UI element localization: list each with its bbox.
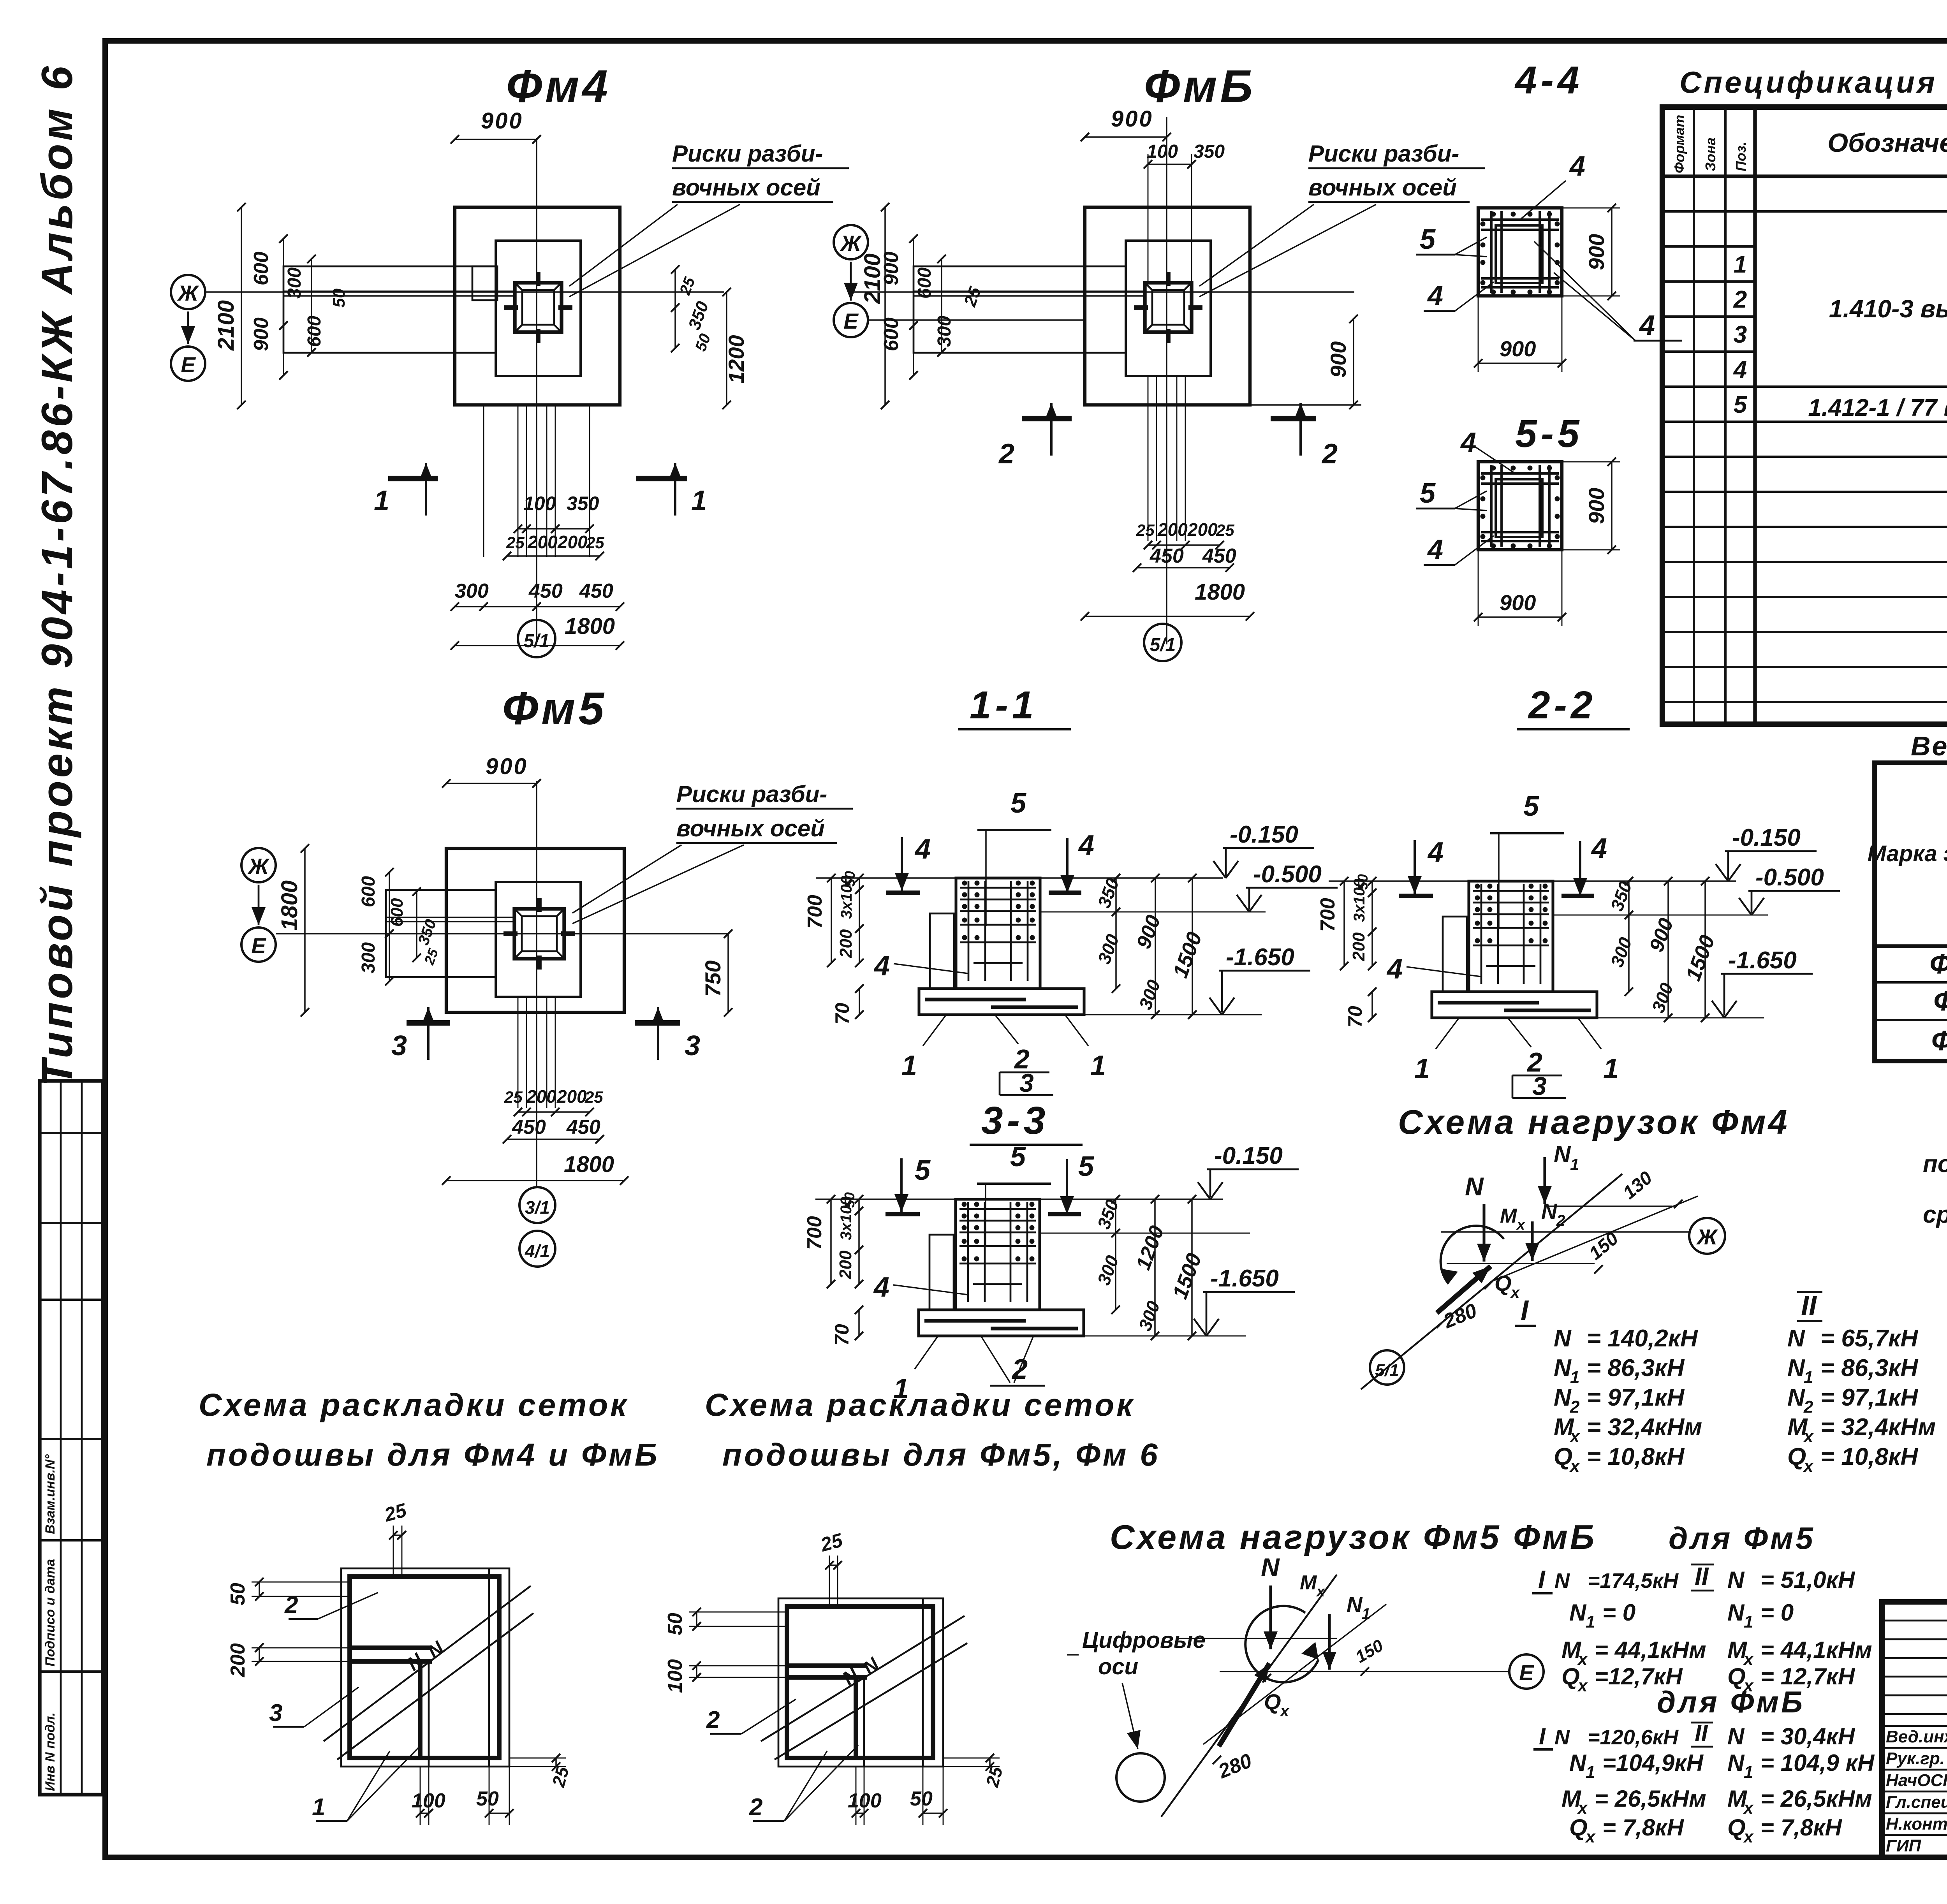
plan ФмБ right dim 900 <box>1353 319 1354 405</box>
svg-text:= 86,3кН: = 86,3кН <box>1587 1355 1685 1381</box>
svg-text:Q: Q <box>1727 1814 1746 1841</box>
svg-text:5: 5 <box>915 1155 931 1186</box>
section 4-4 right dim 900 <box>1611 208 1613 296</box>
svg-text:4: 4 <box>1639 310 1655 341</box>
svg-text:1: 1 <box>1804 1368 1813 1387</box>
svg-text:1: 1 <box>901 1050 917 1081</box>
svg-text:900: 900 <box>481 108 523 134</box>
svg-text:450: 450 <box>566 1116 600 1139</box>
load scheme Фм5 force arrow N <box>1269 1585 1272 1649</box>
svg-text:450: 450 <box>528 580 563 602</box>
svg-text:900: 900 <box>486 754 528 779</box>
svg-text:1: 1 <box>691 485 707 516</box>
mesh square thick mesh border <box>350 1577 499 1758</box>
plan Фм5 right dim 750 <box>727 934 729 1012</box>
svg-text:5: 5 <box>1420 478 1436 509</box>
load scheme Фм5 dim 280 <box>1213 1756 1221 1764</box>
svg-text:= 7,8кН: = 7,8кН <box>1760 1814 1843 1841</box>
plan Фм5 centre axis lines <box>536 781 537 1187</box>
mesh square inner thick bars <box>350 1645 432 1650</box>
svg-text:3: 3 <box>391 1030 407 1061</box>
svg-text:25: 25 <box>504 1088 523 1106</box>
svg-text:1: 1 <box>1570 1155 1579 1174</box>
load scheme Фм5 force arrow N1 <box>1328 1614 1331 1670</box>
plan ФмБ pedestal square <box>1126 241 1211 376</box>
svg-text:Рук.гр.: Рук.гр. <box>1886 1749 1945 1768</box>
mesh square outline <box>778 1598 943 1767</box>
plan ФмБ centre axis lines <box>1166 117 1167 644</box>
steel table grid <box>1875 763 1947 1061</box>
svg-text:1.410-3 вып. 1: 1.410-3 вып. 1 <box>1829 295 1947 323</box>
svg-text:5/1: 5/1 <box>1375 1361 1399 1380</box>
mesh square left dims <box>689 1612 787 1613</box>
svg-text:200: 200 <box>526 1086 556 1107</box>
svg-text:= 10,8кН: = 10,8кН <box>1820 1443 1919 1470</box>
svg-text:25: 25 <box>506 533 525 552</box>
svg-text:II: II <box>1695 1562 1709 1590</box>
load scheme Фм4 horizontal lines <box>1441 1231 1690 1233</box>
load scheme Фм5 shear arrow Qx <box>1219 1663 1269 1746</box>
plan Фм4 pedestal square <box>496 241 581 376</box>
section 3-3 level connector lines <box>1040 1233 1250 1234</box>
svg-text:50: 50 <box>227 1583 249 1605</box>
svg-text:900: 900 <box>250 317 273 351</box>
svg-text:450: 450 <box>1202 545 1236 567</box>
svg-text:срезать.: срезать. <box>1923 1201 1947 1228</box>
svg-text:N: N <box>1465 1172 1484 1201</box>
svg-text:Цифровые: Цифровые <box>1082 1628 1206 1653</box>
svg-text:Н.контр: Н.контр <box>1886 1814 1947 1834</box>
plan Фм5 left small dims <box>389 872 390 981</box>
svg-text:ФмБ: ФмБ <box>1144 61 1256 112</box>
svg-text:N: N <box>1554 1325 1572 1352</box>
svg-text:N: N <box>1787 1384 1805 1411</box>
section 3-3 base slab <box>919 1310 1084 1336</box>
svg-text:3: 3 <box>269 1700 282 1726</box>
svg-text:х: х <box>1585 1827 1596 1846</box>
plan Фм5 column pocket <box>514 909 564 959</box>
svg-text:М: М <box>1500 1205 1517 1227</box>
svg-text:100: 100 <box>523 493 556 514</box>
svg-text:4: 4 <box>1386 954 1403 985</box>
svg-text:200: 200 <box>527 532 558 552</box>
svg-text:подколонников верхние попер: подколонников верхние поперечные стержни… <box>1923 1151 1947 1177</box>
svg-text:4: 4 <box>1460 427 1476 458</box>
svg-text:900: 900 <box>880 252 903 285</box>
svg-text:Схема раскладки сеток: Схема раскладки сеток <box>705 1387 1135 1423</box>
svg-text:100: 100 <box>848 1790 882 1812</box>
svg-text:1-1: 1-1 <box>970 683 1038 727</box>
load scheme Фм4 force arrow N2 <box>1531 1221 1533 1261</box>
section 2-2 pedestal reinforcement <box>1480 884 1482 984</box>
svg-text:= 32,4кНм: = 32,4кНм <box>1587 1414 1702 1441</box>
svg-text:100: 100 <box>1147 141 1178 162</box>
svg-text:=174,5кН: =174,5кН <box>1588 1569 1679 1593</box>
svg-text:I: I <box>1521 1295 1529 1326</box>
svg-text:Ж: Ж <box>247 854 270 878</box>
svg-text:2-2: 2-2 <box>1528 683 1597 727</box>
svg-text:2100: 2100 <box>213 300 239 351</box>
svg-text:5-5: 5-5 <box>1515 412 1583 456</box>
svg-text:М: М <box>1300 1571 1317 1594</box>
svg-text:600: 600 <box>250 252 273 285</box>
svg-text:вочных осей: вочных осей <box>672 174 820 201</box>
section 4-4 mesh bars <box>1490 211 1493 293</box>
svg-text:3x100: 3x100 <box>838 1197 855 1240</box>
plan Фм5 mesh wing rectangle <box>386 890 496 977</box>
svg-text:900: 900 <box>1500 336 1536 361</box>
plan ФмБ mesh wing rectangle <box>914 266 1126 353</box>
section 5-5 right dim 900 <box>1611 462 1613 550</box>
svg-text:1.412-1 / 77 вып. 3: 1.412-1 / 77 вып. 3 <box>1808 394 1947 421</box>
svg-text:300: 300 <box>284 267 305 299</box>
svg-text:Q: Q <box>1569 1814 1588 1841</box>
svg-text:Риски разби-: Риски разби- <box>676 781 827 807</box>
mesh square diagonal axis <box>324 1586 531 1741</box>
section 3-3 side mesh <box>929 1235 954 1310</box>
section 3-3 pedestal <box>956 1199 1040 1310</box>
svg-text:600: 600 <box>358 876 379 907</box>
plan Фм5 top dim 900 <box>446 783 537 784</box>
svg-text:70: 70 <box>831 1003 853 1024</box>
plan Фм4 bottom dim rows <box>483 405 484 557</box>
svg-text:Схема нагрузок Фм5 ФмБ: Схема нагрузок Фм5 ФмБ <box>1110 1518 1597 1556</box>
plan Фм5 section mark 3 right <box>635 1020 680 1026</box>
svg-text:-0.150: -0.150 <box>1732 824 1801 851</box>
svg-text:N: N <box>1569 1600 1587 1626</box>
section 2-2 side mesh <box>1443 917 1467 992</box>
section 3-3 leader 4 mid <box>893 1285 967 1295</box>
svg-text:Q: Q <box>1264 1689 1281 1714</box>
section 2-2 left dims <box>1343 881 1345 966</box>
plan ФмБ axis circle Е <box>834 303 868 337</box>
svg-text:3: 3 <box>1734 321 1747 348</box>
svg-text:= 26,5кНм: = 26,5кНм <box>1760 1786 1872 1812</box>
svg-text:N: N <box>1787 1325 1805 1352</box>
svg-text:= 44,1кНм: = 44,1кНм <box>1760 1637 1872 1663</box>
svg-text:1: 1 <box>1362 1605 1370 1622</box>
plan Фм5 bottom dim rows <box>518 997 519 1108</box>
svg-text:Q: Q <box>1561 1663 1580 1689</box>
svg-text:Фм5: Фм5 <box>1933 985 1947 1017</box>
left margin stamp table <box>40 1081 103 1795</box>
svg-text:х: х <box>1316 1584 1326 1600</box>
svg-text:N: N <box>1261 1553 1280 1582</box>
svg-text:50: 50 <box>329 289 349 308</box>
svg-text:Риски разби-: Риски разби- <box>672 141 823 167</box>
svg-text:1800: 1800 <box>277 880 302 931</box>
svg-text:5: 5 <box>1523 791 1539 822</box>
svg-text:вочных осей: вочных осей <box>1308 174 1457 201</box>
load scheme Фм4 dims 150 130 <box>1594 1265 1603 1274</box>
svg-text:2: 2 <box>1733 286 1747 313</box>
svg-text:5: 5 <box>1010 1141 1026 1172</box>
svg-text:200: 200 <box>557 532 588 552</box>
section 1-1 pedestal reinforcement <box>968 881 970 981</box>
svg-text:для Фм5: для Фм5 <box>1669 1521 1815 1556</box>
mesh square thick mesh border <box>787 1607 933 1758</box>
svg-text:I: I <box>1538 1565 1546 1593</box>
svg-text:2: 2 <box>284 1592 298 1619</box>
svg-text:25: 25 <box>584 1088 603 1106</box>
load scheme Фм4 axis diagonal 5/1 <box>1361 1174 1622 1389</box>
svg-text:Схема раскладки сеток: Схема раскладки сеток <box>199 1387 629 1423</box>
plan Фм4 axis circle Ж <box>171 275 205 309</box>
svg-text:= 51,0кН: = 51,0кН <box>1760 1567 1855 1593</box>
svg-text:5: 5 <box>1078 1151 1094 1182</box>
load scheme Фм4 force arrow N1 <box>1543 1157 1546 1204</box>
svg-text:4-4: 4-4 <box>1514 58 1583 102</box>
section 1-1 arrows 4 <box>901 837 903 891</box>
svg-text:Ж: Ж <box>177 281 199 305</box>
svg-text:700: 700 <box>804 895 826 929</box>
plan Фм4 top dim 900 <box>455 139 537 140</box>
svg-text:НачОСП-1: НачОСП-1 <box>1886 1771 1947 1790</box>
section 1-1 level connector lines <box>1040 912 1266 913</box>
svg-text:600: 600 <box>880 317 903 351</box>
svg-text:Ведомость расхода стали на: Ведомость расхода стали на элемент, кг <box>1911 731 1947 761</box>
svg-text:200: 200 <box>836 929 856 958</box>
section 2-2 ground line <box>1329 880 1736 882</box>
svg-text:300: 300 <box>358 942 379 973</box>
svg-text:2: 2 <box>1011 1354 1028 1385</box>
svg-text:50: 50 <box>664 1613 687 1635</box>
load scheme Фм5 axis diagonal <box>1161 1575 1337 1817</box>
svg-text:= 140,2кН: = 140,2кН <box>1587 1325 1698 1352</box>
svg-text:100: 100 <box>412 1790 445 1812</box>
svg-text:3: 3 <box>1532 1072 1547 1100</box>
svg-text:2: 2 <box>998 438 1014 470</box>
plan Фм5 bottom axis circles 3/1 4/1 <box>519 1187 555 1223</box>
specification table grid <box>1662 107 1947 724</box>
svg-text:4: 4 <box>914 834 931 865</box>
mesh square bottom dims 100 50 <box>856 1767 857 1825</box>
svg-text:700: 700 <box>1317 898 1339 932</box>
svg-text:5: 5 <box>1010 788 1026 819</box>
section 2-2 right dims <box>1628 881 1630 992</box>
svg-text:600: 600 <box>914 267 935 299</box>
main title block outer <box>1882 1602 1947 1857</box>
svg-text:Вед.инж: Вед.инж <box>1886 1727 1947 1746</box>
svg-text:1: 1 <box>1744 1763 1753 1782</box>
svg-text:200: 200 <box>1349 932 1368 961</box>
section 1-1 right dims <box>1115 878 1117 989</box>
mesh square right dim 25 <box>509 1758 566 1759</box>
svg-text:70: 70 <box>831 1324 853 1346</box>
svg-text:200: 200 <box>1187 519 1218 540</box>
svg-text:=104,9кН: =104,9кН <box>1602 1750 1704 1776</box>
svg-text:3-3: 3-3 <box>981 1099 1049 1142</box>
svg-text:50: 50 <box>910 1788 933 1810</box>
svg-text:N: N <box>1569 1750 1587 1776</box>
svg-text:Ж: Ж <box>1696 1225 1718 1249</box>
svg-text:200: 200 <box>227 1643 249 1677</box>
svg-text:900: 900 <box>1326 341 1350 378</box>
svg-text:Фм 4: Фм 4 <box>1929 948 1947 980</box>
section 2-2 slab reinforcement bars <box>1438 1001 1539 1004</box>
svg-text:5/1: 5/1 <box>1150 635 1176 655</box>
svg-text:600: 600 <box>387 898 407 927</box>
svg-text:350: 350 <box>1194 141 1225 162</box>
plan Фм4 axis circle Е <box>171 347 205 381</box>
plan ФмБ left dims <box>884 207 886 405</box>
svg-text:1: 1 <box>1734 251 1747 278</box>
section 5-5 inner pocket square <box>1496 479 1542 537</box>
plan Фм5 axis circle Е <box>241 927 276 962</box>
svg-text:N: N <box>1554 1569 1570 1593</box>
section 2-2 pedestal <box>1469 881 1553 992</box>
svg-text:4: 4 <box>1591 833 1607 864</box>
svg-text:5: 5 <box>1734 391 1748 418</box>
svg-text:N: N <box>1727 1750 1745 1776</box>
svg-text:подошвы для Фм4 и ФмБ: подошвы для Фм4 и ФмБ <box>206 1437 660 1473</box>
svg-text:4: 4 <box>1427 837 1444 868</box>
svg-text:1: 1 <box>1744 1612 1753 1631</box>
svg-text:-1.650: -1.650 <box>1728 947 1797 974</box>
svg-text:Q: Q <box>1554 1443 1572 1470</box>
section 3-3 ground line <box>815 1198 1223 1200</box>
section 4-4 inner pocket square <box>1496 225 1542 283</box>
svg-text:25: 25 <box>586 533 604 552</box>
svg-text:Марка элемента: Марка элемента <box>1868 841 1947 866</box>
svg-text:Q: Q <box>1787 1443 1806 1470</box>
svg-text:200: 200 <box>836 1250 855 1279</box>
section 1-1 ground line <box>816 877 1223 879</box>
load scheme Фм4 axis diagonal Ж direction <box>1491 1196 1698 1282</box>
svg-text:-0.500: -0.500 <box>1755 864 1824 891</box>
load scheme Фм5 cifrovye osi circle <box>1116 1753 1165 1802</box>
svg-text:х: х <box>1577 1676 1588 1695</box>
svg-text:Поз.: Поз. <box>1733 142 1749 171</box>
plan Фм5 axis circle Ж <box>241 848 276 882</box>
svg-text:2: 2 <box>1321 438 1338 470</box>
svg-text:-0.500: -0.500 <box>1253 861 1322 888</box>
svg-text:= 10,8кН: = 10,8кН <box>1587 1443 1685 1470</box>
svg-text:4: 4 <box>873 1272 889 1303</box>
svg-text:100: 100 <box>664 1659 687 1693</box>
svg-text:5: 5 <box>1420 224 1436 255</box>
mesh square bottom dims 100 50 <box>420 1767 421 1825</box>
load scheme Фм5 horizontal lines <box>1220 1671 1510 1672</box>
svg-text:N: N <box>1541 1199 1558 1223</box>
svg-text:х: х <box>1803 1457 1814 1476</box>
svg-text:750: 750 <box>701 961 725 997</box>
svg-text:3: 3 <box>685 1030 700 1061</box>
section 1-1 ground hatch ticks <box>886 890 920 895</box>
mesh square top dim 25 <box>393 1526 394 1577</box>
svg-text:4/1: 4/1 <box>525 1241 550 1261</box>
svg-text:Ж: Ж <box>840 231 862 255</box>
svg-text:Фм4: Фм4 <box>506 61 611 112</box>
svg-text:70: 70 <box>1344 1006 1366 1028</box>
plan ФмБ section mark 2 right <box>1271 416 1316 421</box>
svg-text:Обозначение: Обозначение <box>1827 128 1947 158</box>
load scheme Фм5 dim 150 <box>1361 1667 1369 1676</box>
svg-text:Риски разби-: Риски разби- <box>1308 141 1459 167</box>
svg-text:= 97,1кН: = 97,1кН <box>1587 1384 1685 1411</box>
svg-text:Формат: Формат <box>1671 115 1687 173</box>
svg-text:II: II <box>1695 1720 1708 1746</box>
svg-text:1: 1 <box>1414 1053 1430 1084</box>
section 3-3 slab reinforcement bars <box>924 1319 1026 1322</box>
plan ФмБ axis circle Ж <box>834 225 868 259</box>
plan Фм4 bottom axis circle 5/1 <box>518 620 555 657</box>
svg-text:4: 4 <box>1078 830 1094 861</box>
load scheme Фм4 axis circle 5/1 <box>1370 1350 1404 1385</box>
section 1-1 leaders 1 2 3 <box>923 1015 946 1046</box>
load scheme Фм4 force arrow N <box>1482 1204 1485 1262</box>
svg-text:Схема нагрузок Фм4: Схема нагрузок Фм4 <box>1398 1103 1790 1141</box>
svg-text:350: 350 <box>567 493 599 514</box>
svg-text:N: N <box>1554 1384 1572 1411</box>
section 3-3 pedestal reinforcement <box>967 1202 969 1302</box>
svg-text:2: 2 <box>1556 1212 1565 1229</box>
section 2-2 arrows 4 <box>1414 840 1416 894</box>
svg-text:3: 3 <box>1019 1068 1034 1097</box>
svg-text:900: 900 <box>1584 488 1609 524</box>
svg-text:450: 450 <box>1150 545 1184 567</box>
svg-text:х: х <box>1743 1827 1754 1846</box>
plan ФмБ bottom dim rows <box>1148 376 1149 541</box>
svg-text:1: 1 <box>1570 1368 1579 1387</box>
section 3-3 left dims <box>830 1199 832 1284</box>
svg-text:Взам.инв.N°: Взам.инв.N° <box>43 1454 58 1534</box>
svg-text:Е: Е <box>1519 1660 1534 1685</box>
svg-text:N: N <box>1787 1355 1805 1381</box>
plan ФмБ outer slab square <box>1085 207 1250 405</box>
svg-text:= 0: = 0 <box>1760 1600 1794 1626</box>
svg-text:4: 4 <box>1733 356 1747 383</box>
svg-text:= 7,8кН: = 7,8кН <box>1602 1814 1685 1841</box>
plan ФмБ column pocket <box>1145 283 1192 332</box>
svg-text:х: х <box>1516 1217 1526 1233</box>
svg-text:Типовой проект 904-1-67.86: Типовой проект 904-1-67.86-КЖ Альбом 6 <box>33 66 81 1086</box>
section 1-1 base slab <box>919 989 1084 1015</box>
svg-text:25: 25 <box>1216 521 1234 539</box>
svg-text:N: N <box>1554 1726 1570 1749</box>
load scheme Фм4 dim 280 <box>1436 1320 1445 1328</box>
svg-text:= 0: = 0 <box>1602 1600 1635 1626</box>
svg-text:25: 25 <box>1136 521 1155 539</box>
plan Фм4 section mark 1 left <box>388 476 438 481</box>
plan Фм4 left dim 2100 <box>241 207 242 405</box>
section 2-2 base slab <box>1432 992 1597 1018</box>
plan Фм5 left dim 1800 <box>304 848 306 1012</box>
svg-text:N: N <box>1554 1141 1571 1167</box>
plan Фм4 centre axis lines <box>536 138 537 644</box>
mesh square inner thick bars <box>787 1663 867 1668</box>
svg-text:700: 700 <box>803 1216 826 1250</box>
svg-text:N: N <box>1347 1592 1363 1617</box>
svg-text:=120,6кН: =120,6кН <box>1588 1726 1679 1749</box>
svg-text:3x100: 3x100 <box>1351 879 1368 922</box>
plan ФмБ top dims 900 100 350 <box>1085 136 1167 138</box>
section 3-3 leaders 1 2 3 <box>915 1336 938 1369</box>
svg-text:1: 1 <box>1603 1053 1619 1084</box>
plan ФмБ section mark 2 left <box>1022 416 1072 421</box>
svg-text:= 26,5кНм: = 26,5кНм <box>1595 1786 1706 1812</box>
section 3-3 right dims <box>1115 1199 1116 1310</box>
svg-text:-1.650: -1.650 <box>1210 1265 1279 1292</box>
load scheme Фм5 moment arc Mx <box>1245 1606 1319 1682</box>
svg-text:1: 1 <box>1586 1612 1595 1631</box>
svg-text:3x100: 3x100 <box>838 876 855 919</box>
plan ФмБ bottom axis circle 5/1 <box>1144 624 1181 661</box>
svg-text:Инв N подл.: Инв N подл. <box>43 1712 58 1791</box>
section 5-5 mesh bars <box>1490 465 1493 547</box>
svg-text:Е: Е <box>843 309 859 333</box>
plan Фм4 outer slab square <box>455 207 620 405</box>
